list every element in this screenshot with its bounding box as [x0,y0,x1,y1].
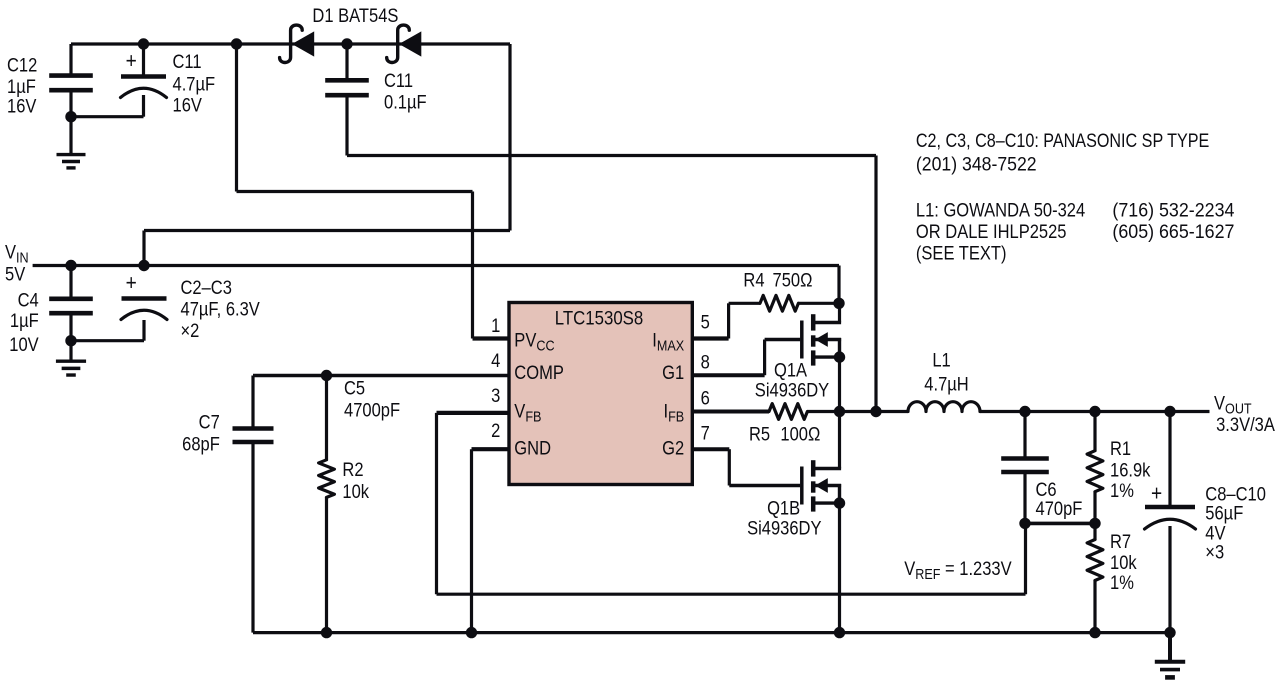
svg-text:(605) 665-1627: (605) 665-1627 [1112,220,1234,242]
svg-text:Q1B: Q1B [767,497,800,518]
svg-text:10V: 10V [9,334,39,355]
svg-text:COMP: COMP [514,362,564,383]
svg-text:1µF: 1µF [10,310,39,331]
svg-text:×3: ×3 [1205,541,1224,562]
svg-text:8: 8 [701,352,710,373]
svg-text:4.7µH: 4.7µH [924,373,968,394]
svg-text:+: + [126,271,137,296]
svg-text:L1: L1 [932,350,950,371]
svg-text:4.7µF: 4.7µF [173,73,216,94]
svg-text:16V: 16V [173,94,203,115]
svg-text:750Ω: 750Ω [773,269,813,290]
svg-text:G1: G1 [662,362,684,383]
svg-text:470pF: 470pF [1036,498,1083,519]
svg-text:R1: R1 [1110,438,1131,459]
svg-text:C11: C11 [173,51,202,72]
svg-text:Si4936DY: Si4936DY [755,379,830,400]
svg-text:4: 4 [491,350,500,371]
svg-text:4700pF: 4700pF [344,399,400,420]
svg-text:1%: 1% [1110,572,1134,593]
svg-text:C5: C5 [344,377,365,398]
svg-text:G2: G2 [662,438,684,459]
svg-text:LTC1530S8: LTC1530S8 [555,307,643,328]
svg-text:0.1µF: 0.1µF [384,91,427,112]
svg-text:D1 BAT54S: D1 BAT54S [312,5,398,26]
svg-text:R4: R4 [743,269,764,290]
svg-text:L1: GOWANDA 50-324: L1: GOWANDA 50-324 [916,199,1085,220]
svg-text:Si4936DY: Si4936DY [747,517,822,538]
svg-text:+: + [126,49,137,74]
svg-text:100Ω: 100Ω [780,423,820,444]
svg-text:(716) 532-2234: (716) 532-2234 [1112,199,1234,221]
svg-text:10k: 10k [1110,552,1137,573]
svg-text:C7: C7 [199,411,220,432]
svg-text:×2: ×2 [181,320,200,341]
svg-text:C2, C3, C8–C10: PANASONIC SP T: C2, C3, C8–C10: PANASONIC SP TYPE [916,130,1209,152]
svg-text:R2: R2 [342,459,363,480]
svg-text:(201) 348-7522: (201) 348-7522 [916,153,1037,175]
svg-text:16V: 16V [7,95,37,116]
svg-text:C2–C3: C2–C3 [181,277,233,298]
svg-text:(SEE TEXT): (SEE TEXT) [916,242,1007,263]
svg-text:5V: 5V [5,264,25,285]
svg-text:C11: C11 [384,70,413,91]
svg-text:5: 5 [701,311,710,332]
svg-text:OR DALE IHLP2525: OR DALE IHLP2525 [916,221,1067,242]
svg-text:+: + [1151,481,1162,506]
svg-text:C12: C12 [7,55,37,76]
svg-text:56µF: 56µF [1205,502,1243,523]
svg-text:3: 3 [491,385,500,406]
svg-text:R5: R5 [749,423,770,444]
svg-text:7: 7 [701,422,710,443]
svg-text:Q1A: Q1A [774,359,807,380]
svg-text:6: 6 [701,387,710,408]
svg-text:1µF: 1µF [7,76,36,97]
svg-text:C4: C4 [18,289,39,310]
svg-text:1%: 1% [1110,480,1134,501]
svg-text:68pF: 68pF [182,433,220,454]
svg-text:1: 1 [491,315,500,336]
svg-text:16.9k: 16.9k [1110,459,1151,480]
svg-text:3.3V/3A: 3.3V/3A [1216,414,1275,435]
svg-text:GND: GND [514,438,551,459]
svg-text:10k: 10k [342,481,369,502]
svg-text:R7: R7 [1110,531,1131,552]
svg-text:2: 2 [491,420,500,441]
svg-text:47µF, 6.3V: 47µF, 6.3V [181,298,260,319]
